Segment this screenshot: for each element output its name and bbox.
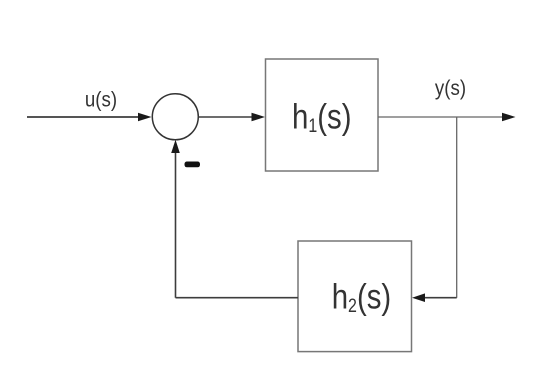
svg-text:h1(s): h1(s) bbox=[292, 97, 352, 136]
svg-text:u(s): u(s) bbox=[85, 88, 117, 111]
svg-text:h2(s): h2(s) bbox=[332, 277, 392, 316]
svg-text:y(s): y(s) bbox=[435, 77, 466, 100]
